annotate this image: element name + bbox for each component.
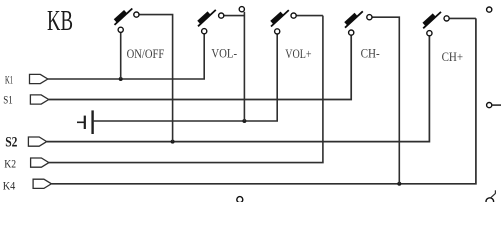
lever VOL-: [198, 10, 216, 26]
lever CH+: [423, 12, 441, 28]
wire S2 row: [47, 36, 430, 142]
lever ON/OFF: [115, 9, 133, 25]
terminal CH+ right: [444, 16, 449, 21]
terminal ON/OFF bottom: [118, 27, 123, 32]
wire VOL+ right horizontal: [296, 15, 323, 17]
svg-text:S2: S2: [5, 135, 17, 151]
wire CH+ right horizontal: [449, 17, 476, 19]
wire VOL- right to battery: [224, 15, 245, 17]
switch ON/OFF: [115, 9, 173, 142]
svg-text:VOL-: VOL-: [211, 47, 237, 61]
node bottom-center circle: [237, 197, 243, 203]
terminal CH+ bottom: [427, 31, 432, 36]
wire CH- right horizontal: [372, 17, 399, 184]
node mid-right circle: [487, 103, 501, 108]
node bottom-right circle: [486, 190, 495, 205]
terminal VOL+ right: [291, 13, 296, 18]
wire ON/OFF right to S2: [139, 15, 173, 142]
connector K4: [33, 179, 51, 188]
node top-right circle: [487, 7, 492, 12]
connector K1: [30, 74, 48, 83]
wire S1 row: [49, 35, 352, 99]
svg-text:K4: K4: [3, 179, 16, 193]
lever VOL+: [271, 10, 289, 26]
terminal ON/OFF right: [134, 12, 139, 17]
wire battery to VOL+ bottom: [93, 34, 278, 121]
wire mid-right stub: [492, 104, 501, 106]
connector K2: [31, 158, 49, 167]
terminal CH- right: [367, 15, 372, 20]
battery B1: [77, 110, 93, 134]
connector S1: [30, 95, 48, 104]
junction battery/VOL- right: [242, 119, 246, 123]
svg-text:CH-: CH-: [361, 47, 380, 61]
junction K1/ON-OFF: [119, 77, 123, 81]
svg-text:ON/OFF: ON/OFF: [127, 47, 165, 61]
wire K1 row: [48, 34, 204, 79]
junction K4/CH- right: [397, 182, 401, 186]
terminal VOL+ bottom: [275, 29, 280, 34]
svg-text:K2: K2: [4, 157, 16, 171]
svg-text:KB: KB: [47, 6, 73, 37]
wire ON/OFF bottom to K1: [120, 32, 122, 79]
wire K2 row: [49, 16, 323, 163]
svg-text:VOL+: VOL+: [285, 47, 311, 61]
junction S2/ON-OFF right: [171, 140, 175, 144]
terminal VOL- right: [219, 13, 224, 18]
switch CH+: [423, 12, 476, 64]
svg-text:K1: K1: [5, 75, 13, 87]
wire K4 row: [51, 18, 476, 183]
svg-text:S1: S1: [3, 95, 13, 107]
terminal VOL- bottom: [202, 29, 207, 34]
terminal CH- bottom: [349, 30, 354, 35]
wire VOL- vertical: [243, 12, 245, 121]
connector S2: [28, 137, 46, 146]
switch CH-: [345, 11, 399, 184]
svg-text:CH+: CH+: [442, 50, 464, 64]
wire bottom-right tick: [491, 194, 496, 198]
terminal VOL- top circle: [239, 7, 244, 12]
switch VOL+: [271, 10, 323, 61]
switch VOL-: [198, 7, 244, 121]
lever CH-: [345, 11, 363, 27]
